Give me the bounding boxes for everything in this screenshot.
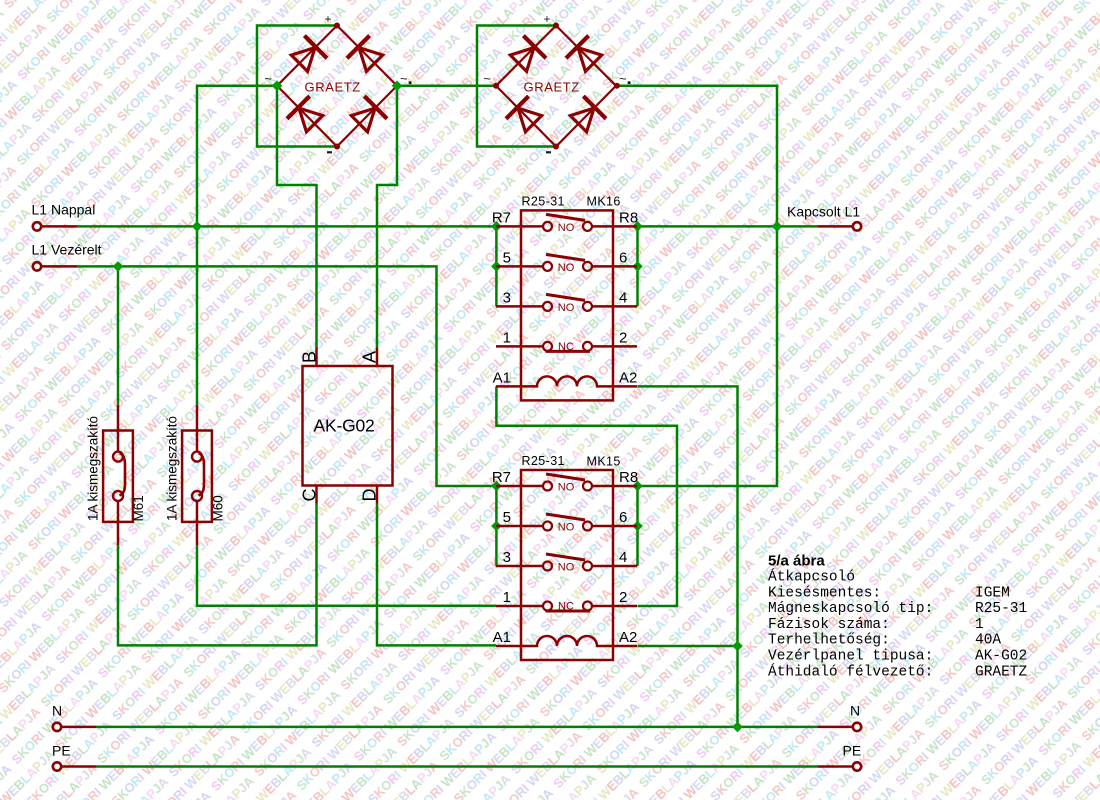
- terminal PE left: [53, 762, 61, 770]
- wire net PE: [96, 765, 818, 768]
- svg-text:Áthidaló félvezető:: Áthidaló félvezető:: [768, 662, 933, 680]
- label B2 minus: [546, 151, 551, 153]
- junction MK16 R7: [491, 221, 502, 232]
- pin mark B2 right: [628, 81, 631, 84]
- junction MK16 pin 6: [632, 261, 643, 272]
- svg-text:N: N: [850, 703, 860, 719]
- pin stub terminal N left: [62, 726, 97, 729]
- svg-text:B: B: [300, 351, 320, 363]
- svg-text:AK-G02: AK-G02: [314, 415, 375, 435]
- svg-text:D: D: [360, 489, 380, 502]
- svg-text:PE: PE: [843, 743, 862, 759]
- pin stub AK-G02 pin B: [315, 347, 318, 366]
- junction Kapcsolt L1 at x=777: [772, 221, 783, 232]
- junction MK15 R8: [632, 481, 643, 492]
- svg-text:MK15: MK15: [587, 455, 621, 469]
- svg-text:Fázisok száma:: Fázisok száma:: [768, 617, 890, 633]
- pin stub terminal PE left: [62, 765, 97, 768]
- svg-text:L1 Nappal: L1 Nappal: [32, 202, 96, 218]
- svg-text:MK16: MK16: [587, 195, 621, 209]
- wire MK16 A1 to MK15 pin 2: [496, 386, 677, 606]
- svg-text:GRAETZ: GRAETZ: [305, 80, 361, 95]
- junction MK16 R8: [632, 221, 643, 232]
- bridge B1 diamond edges: [277, 26, 397, 147]
- svg-text:1: 1: [975, 617, 984, 633]
- svg-text:5/a ábra: 5/a ábra: [768, 553, 825, 570]
- junction B1 right AC node: [392, 81, 403, 92]
- pin stub terminal L1 Vezérelt: [42, 265, 78, 268]
- svg-text:~: ~: [264, 71, 272, 86]
- svg-text:Mágneskapcsoló tip:: Mágneskapcsoló tip:: [768, 601, 933, 617]
- svg-text:Terhelhetőség:: Terhelhetőség:: [768, 633, 890, 649]
- node dot B2 right AC: [614, 83, 620, 89]
- title block 5/a ábra: [768, 553, 1028, 681]
- svg-text:~: ~: [619, 71, 627, 86]
- wire bridge B2 plus-minus shunt loop: [477, 26, 556, 147]
- wire AK-G02 pin D to MK15 A1: [377, 504, 496, 646]
- svg-text:1A kismegszakító: 1A kismegszakító: [86, 416, 101, 521]
- junction MK15 A2 branch: [732, 641, 743, 652]
- svg-text:A: A: [360, 351, 380, 363]
- wire breaker M61 output to AK-G02 pin C: [118, 504, 317, 646]
- node dot B2 left AC: [493, 83, 499, 89]
- wire bridge B1 plus-minus shunt loop: [257, 26, 337, 147]
- junction on L1 Nappal at x=197: [192, 221, 203, 232]
- svg-text:M61: M61: [131, 495, 146, 521]
- node dot B2 minus: [553, 144, 559, 150]
- svg-text:L1 Vezérelt: L1 Vezérelt: [32, 242, 102, 258]
- svg-text:PE: PE: [52, 743, 71, 759]
- wire bridge B2 right node to Kapcsolt L1 and down to MK15 R8: [617, 86, 777, 486]
- junction B1 left AC node: [272, 81, 283, 92]
- node dot B1 minus: [334, 144, 340, 150]
- svg-text:+: +: [544, 14, 551, 26]
- node dot B1 plus: [334, 23, 340, 29]
- wire MK15 left bus R7-5-3: [495, 486, 498, 566]
- svg-text:GRAETZ: GRAETZ: [524, 80, 580, 95]
- svg-text:1A kismegszakító: 1A kismegszakító: [165, 416, 180, 521]
- junction MK15 pin 6: [632, 521, 643, 532]
- wire breaker M60 output down to MK15 pin 1: [197, 545, 496, 606]
- diode B2 upper-left: [507, 36, 546, 75]
- svg-text:Kapcsolt L1: Kapcsolt L1: [787, 204, 860, 220]
- wire MK16 A2 down to N: [638, 386, 738, 727]
- wire L1 Vezérelt branch down through breaker M61: [117, 266, 120, 404]
- pin stub AK-G02 pin A: [376, 347, 379, 366]
- svg-text:GRAETZ: GRAETZ: [975, 664, 1028, 680]
- bridge rectifier B1 GRAETZ: [264, 14, 411, 153]
- diode B1 upper-left: [288, 36, 327, 75]
- wire bridge B1 right node to bridge B2 left node: [397, 85, 496, 88]
- svg-text:40A: 40A: [975, 633, 1001, 649]
- wire net L1 Nappal horizontal run to MK16 R7: [77, 225, 496, 228]
- svg-text:+: +: [325, 14, 332, 26]
- junction L1 Vezérelt at x=118: [113, 261, 124, 272]
- pin stub terminal PE right: [818, 765, 853, 768]
- circuit breaker M61: [103, 405, 133, 546]
- svg-text:Vezérlpanel tipusa:: Vezérlpanel tipusa:: [768, 649, 933, 665]
- svg-text:AK-G02: AK-G02: [975, 649, 1027, 665]
- svg-text:M60: M60: [211, 495, 226, 521]
- pin stub terminal L1 Nappal: [42, 225, 78, 228]
- control panel U1 AK-G02: [300, 351, 393, 502]
- wire MK16 left bus R7-5-3: [495, 226, 498, 306]
- terminal L1 Vezérelt: [33, 262, 41, 270]
- diode B1 lower-right: [348, 96, 387, 135]
- junction N at x=737.5: [732, 722, 743, 733]
- svg-text:~: ~: [400, 71, 408, 86]
- wire net L1 Vezérelt horizontal then down to MK15 R7: [77, 266, 496, 486]
- svg-text:~: ~: [483, 71, 491, 86]
- terminal Kapcsolt L1: [853, 222, 861, 230]
- relay contact block MK16 R25-31: [492, 194, 638, 400]
- svg-text:N: N: [52, 703, 62, 719]
- node dot B2 plus: [553, 23, 559, 29]
- junction MK16 pin 5: [491, 261, 502, 272]
- pin stub AK-G02 pin C: [315, 486, 318, 504]
- svg-text:Átkapcsoló: Átkapcsoló: [768, 567, 855, 585]
- terminal L1 Nappal: [33, 222, 41, 230]
- bridge rectifier B2 GRAETZ: [483, 14, 630, 153]
- pin stub terminal N right: [818, 726, 853, 729]
- wire net Kapcsolt L1 from MK16 R8 to terminal: [638, 225, 819, 228]
- AK-G02 body outline: [303, 366, 393, 486]
- terminal PE right: [853, 762, 861, 770]
- svg-text:R25-31: R25-31: [975, 601, 1027, 617]
- svg-text:IGEM: IGEM: [975, 585, 1010, 601]
- diode B2 lower-right: [567, 96, 606, 135]
- wire L1 Nappal branch up to bridge B1 left AC node and down through breaker M60: [197, 86, 277, 405]
- junction MK15 pin 5: [491, 521, 502, 532]
- label B1 minus: [327, 151, 332, 153]
- wire MK15 right bus R8-6-4: [636, 486, 639, 566]
- pin stub AK-G02 pin D: [376, 486, 379, 504]
- terminal N right: [853, 723, 861, 731]
- terminal N left: [53, 723, 61, 731]
- pin stub terminal Kapcsolt L1: [818, 225, 853, 228]
- relay contact block MK15 R25-31: [492, 454, 638, 660]
- wire bridge B1 left node down to AK-G02 pin B: [277, 86, 317, 347]
- diode B2 upper-right: [566, 36, 605, 75]
- diode B1 upper-right: [347, 36, 386, 75]
- pin mark B1 right: [409, 81, 412, 84]
- wire net N: [96, 726, 818, 729]
- diode B1 lower-left: [287, 96, 326, 135]
- circuit breaker M60: [182, 405, 212, 546]
- wire bridge B1 right node down to AK-G02 pin A: [377, 86, 397, 347]
- diode B2 lower-left: [506, 96, 545, 135]
- wire MK16 right bus R8-6-4: [636, 226, 639, 306]
- svg-text:Kiesésmentes:: Kiesésmentes:: [768, 585, 881, 601]
- wire MK15 A2 to N branch: [638, 645, 738, 648]
- svg-text:C: C: [300, 489, 320, 502]
- bridge B2 diamond edges: [496, 26, 616, 147]
- junction MK15 R7: [491, 481, 502, 492]
